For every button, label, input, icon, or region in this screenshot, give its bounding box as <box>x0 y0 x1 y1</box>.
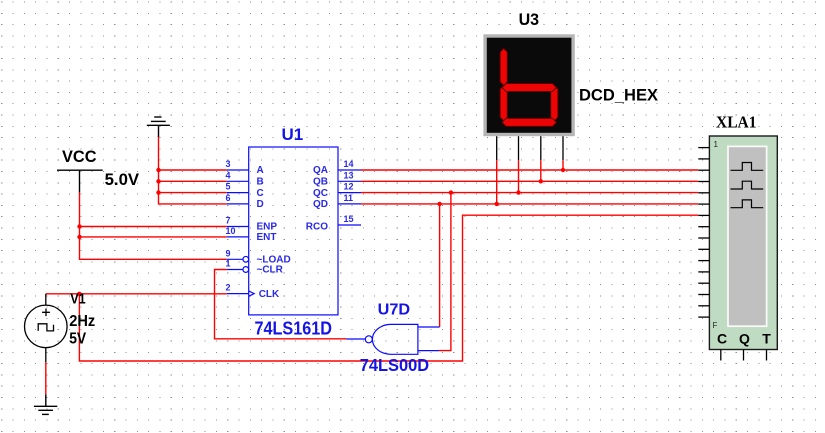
VCC power symbol <box>57 170 103 192</box>
svg-text:B: B <box>257 177 264 188</box>
nand gate U7D <box>346 324 439 354</box>
junction gnd/C <box>156 190 160 194</box>
svg-text:ENT: ENT <box>257 232 277 243</box>
wire V1 to CLK pin2 <box>46 293 227 295</box>
wire QB: U1 pin13 to XLA pin4 <box>361 180 698 182</box>
svg-text:D: D <box>257 199 264 210</box>
svg-text:12: 12 <box>344 182 354 192</box>
svg-text:2: 2 <box>226 283 231 293</box>
svg-text:5: 5 <box>226 182 231 192</box>
wire U7D output to ~CLR pin1 <box>215 270 347 339</box>
svg-text:QB: QB <box>313 177 328 188</box>
svg-text:C: C <box>717 331 727 347</box>
wire V1 bottom to ground <box>45 362 47 394</box>
junction VCC/ENT <box>77 235 81 239</box>
junction QC/display <box>516 190 520 194</box>
segment G <box>502 84 557 92</box>
wire ground to D pin6 <box>159 136 227 204</box>
svg-text:13: 13 <box>344 170 354 180</box>
segment C <box>551 85 558 120</box>
junction QA/display <box>561 168 565 172</box>
svg-text:10: 10 <box>226 226 236 236</box>
clock source V1 <box>25 294 68 362</box>
wire display lead 4 to QA row <box>562 160 564 170</box>
waveform icon 2 <box>731 181 764 189</box>
wire display lead 2 to QC row <box>518 160 520 193</box>
svg-text:T: T <box>762 331 771 347</box>
U1 pin numbers <box>226 159 354 293</box>
svg-text:74LS161D: 74LS161D <box>255 318 333 339</box>
waveform icon 3 <box>731 200 764 208</box>
wire QD: U1 pin11 to XLA pin6 <box>361 203 698 205</box>
svg-text:5.0V: 5.0V <box>105 171 140 189</box>
svg-text:Q: Q <box>739 331 750 347</box>
svg-text:V1: V1 <box>70 291 86 307</box>
svg-text:DCD_HEX: DCD_HEX <box>579 85 659 104</box>
wire display lead 1 to QD row <box>496 160 498 204</box>
svg-text:3: 3 <box>226 159 231 169</box>
svg-text:C: C <box>257 188 264 199</box>
seven-segment display U3 <box>483 34 574 136</box>
svg-text:1: 1 <box>714 140 719 149</box>
svg-text:11: 11 <box>344 193 354 203</box>
svg-text:2Hz: 2Hz <box>69 313 95 330</box>
wire QC: U1 pin12 to XLA pin5 <box>361 192 698 194</box>
svg-text:ENP: ENP <box>257 222 278 233</box>
svg-text:7: 7 <box>226 216 231 226</box>
ground (bottom) <box>34 394 57 414</box>
svg-text:QA: QA <box>313 165 328 176</box>
segment E <box>500 85 507 120</box>
svg-text:9: 9 <box>226 248 231 258</box>
svg-text:~CLR: ~CLR <box>257 265 284 276</box>
svg-text:QD: QD <box>313 199 328 210</box>
svg-text:RCO: RCO <box>306 222 328 233</box>
svg-text:U3: U3 <box>519 11 540 29</box>
junction QB/display <box>539 179 543 183</box>
junction gnd/B <box>156 179 160 183</box>
svg-text:XLA1: XLA1 <box>716 113 757 132</box>
svg-text:5V: 5V <box>69 331 87 348</box>
XLA1 left pins <box>698 148 709 318</box>
svg-text:U1: U1 <box>282 125 304 144</box>
junction clock branch <box>77 292 81 296</box>
segment F <box>500 48 507 85</box>
logic analyzer XLA1 <box>698 136 777 361</box>
wire VCC stem to ~LOAD pin9 <box>80 192 227 259</box>
wire ground branch to A pin3 <box>159 169 227 171</box>
ground (top, flipped) <box>147 117 170 137</box>
junction VCC/ENP <box>77 224 81 228</box>
svg-text:A: A <box>257 165 264 176</box>
svg-text:CLK: CLK <box>259 289 280 300</box>
svg-text:F: F <box>713 321 718 330</box>
junction gnd/A <box>156 168 160 172</box>
segment D <box>502 118 557 126</box>
svg-text:1: 1 <box>226 259 231 269</box>
junction QC/gate <box>449 190 453 194</box>
wire QA: U1 pin14 to XLA pin3 <box>361 169 698 171</box>
junction QD/gate <box>437 202 441 206</box>
wire QC row to U7D input B <box>439 193 451 351</box>
svg-text:14: 14 <box>344 159 354 169</box>
wire clock net to XLA pin7 <box>79 215 698 361</box>
U1 pin names <box>257 165 329 300</box>
waveform icon 1 <box>731 163 764 171</box>
svg-text:QC: QC <box>313 188 328 199</box>
svg-text:U7D: U7D <box>378 302 411 319</box>
wire VCC to ENP pin7 <box>80 226 227 228</box>
wire QD row to U7D input A <box>439 204 441 327</box>
counter U1 74LS161D <box>227 147 361 315</box>
svg-text:VCC: VCC <box>62 147 97 166</box>
svg-text:74LS00D: 74LS00D <box>360 355 430 375</box>
wire VCC to ENT pin10 <box>80 236 227 238</box>
wire display lead 3 to QB row <box>540 160 542 181</box>
svg-text:15: 15 <box>344 214 354 224</box>
wire ground branch to B pin4 <box>159 180 227 182</box>
junction QD/display <box>495 202 499 206</box>
svg-text:6: 6 <box>226 193 231 203</box>
U3 display leads <box>497 136 563 160</box>
svg-text:4: 4 <box>226 170 231 180</box>
XLA1 bottom pins C Q T <box>721 350 767 361</box>
wire ground branch to C pin5 <box>159 192 227 194</box>
